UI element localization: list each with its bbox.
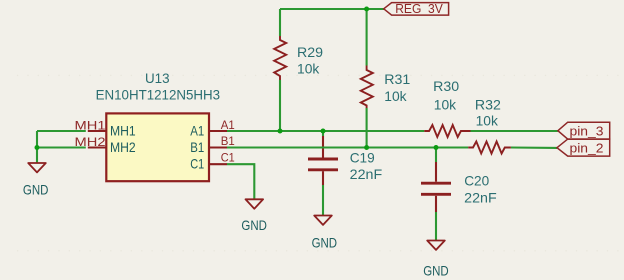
label MH1 bbox=[75, 120, 106, 133]
pin MH2 of U13 bbox=[88, 139, 136, 155]
svg-text:R30: R30 bbox=[433, 78, 459, 94]
svg-text:C19: C19 bbox=[350, 150, 375, 166]
resistor R30 bbox=[424, 78, 470, 137]
svg-text:A1: A1 bbox=[190, 123, 204, 139]
symbol U13 body bbox=[106, 113, 209, 181]
wire B1 row to pin_2 bbox=[511, 146, 557, 148]
reference U13 bbox=[145, 70, 170, 86]
svg-text:C1: C1 bbox=[190, 156, 204, 172]
svg-text:10k: 10k bbox=[297, 60, 319, 76]
resistor R32 bbox=[468, 96, 511, 153]
svg-text:22nF: 22nF bbox=[350, 166, 383, 182]
wire C19 top stub bbox=[322, 131, 324, 136]
svg-text:B1: B1 bbox=[190, 139, 204, 155]
ground MH bbox=[23, 163, 49, 198]
pin C1 of U13 bbox=[190, 156, 227, 172]
svg-text:10k: 10k bbox=[384, 88, 406, 104]
ground C20 bbox=[423, 241, 449, 279]
wire C20 top stub bbox=[435, 148, 437, 163]
svg-text:R31: R31 bbox=[384, 71, 410, 87]
label A1 bbox=[221, 119, 235, 132]
label C1 bbox=[221, 152, 235, 165]
wire MH1 row bbox=[37, 130, 86, 132]
resistor R29 bbox=[274, 36, 323, 80]
wire top rail REG_3V bbox=[280, 8, 384, 10]
pin MH1 of U13 bbox=[88, 123, 136, 139]
capacitor C20 bbox=[421, 162, 497, 212]
resistor R31 bbox=[361, 66, 411, 109]
svg-text:B1: B1 bbox=[221, 135, 235, 148]
svg-text:GND: GND bbox=[312, 235, 338, 251]
svg-text:MH1: MH1 bbox=[75, 120, 106, 133]
svg-text:A1: A1 bbox=[221, 119, 235, 132]
label B1 bbox=[221, 135, 235, 148]
wire R31 top bbox=[366, 9, 368, 66]
value EN10HT1212N5HH3 bbox=[96, 87, 221, 103]
svg-text:pin_3: pin_3 bbox=[570, 124, 604, 138]
junction node A1 / R29 bbox=[278, 129, 283, 134]
svg-text:MH2: MH2 bbox=[110, 139, 136, 155]
wire A1 row to pin_3 bbox=[471, 130, 558, 132]
svg-text:C1: C1 bbox=[221, 152, 235, 165]
junction node B1 / R31 bbox=[364, 145, 369, 150]
global label REG_3V bbox=[384, 2, 449, 16]
svg-text:MH2: MH2 bbox=[75, 136, 106, 149]
wire A1 row bbox=[227, 130, 424, 132]
svg-text:C20: C20 bbox=[464, 172, 489, 188]
svg-text:MH1: MH1 bbox=[110, 123, 136, 139]
capacitor C19 bbox=[308, 136, 382, 185]
label MH2 bbox=[75, 136, 106, 149]
svg-text:10k: 10k bbox=[434, 96, 456, 112]
pin A1 of U13 bbox=[190, 123, 227, 139]
junction node B1 / C20 bbox=[434, 145, 439, 150]
svg-text:pin_2: pin_2 bbox=[570, 141, 604, 155]
junction node A1 / C19 bbox=[321, 129, 326, 134]
svg-text:EN10HT1212N5HH3: EN10HT1212N5HH3 bbox=[96, 87, 221, 103]
ground C1 bbox=[241, 199, 267, 233]
global label pin_3 bbox=[558, 122, 610, 139]
wire C20 bottom to ground bbox=[435, 212, 437, 241]
svg-text:R32: R32 bbox=[475, 96, 501, 112]
svg-text:GND: GND bbox=[423, 263, 449, 279]
svg-text:REG_3V: REG_3V bbox=[395, 2, 443, 16]
wire R29 top bbox=[279, 9, 281, 36]
wire R29 bottom to node A1 bbox=[279, 80, 281, 131]
svg-text:GND: GND bbox=[241, 217, 267, 233]
wire C19 bottom to ground bbox=[322, 185, 324, 216]
svg-text:22nF: 22nF bbox=[464, 189, 497, 205]
svg-text:R29: R29 bbox=[297, 44, 323, 60]
wire C1 row bbox=[227, 164, 254, 199]
global label pin_2 bbox=[557, 139, 610, 156]
wire MH2 row bbox=[37, 146, 86, 148]
pin B1 of U13 bbox=[190, 139, 227, 155]
junction MH2 / ground bbox=[35, 145, 40, 150]
junction top rail / R31 bbox=[364, 7, 369, 12]
svg-text:U13: U13 bbox=[145, 70, 170, 86]
svg-text:10k: 10k bbox=[476, 113, 498, 129]
svg-text:GND: GND bbox=[23, 182, 49, 198]
wire R31 bottom to node B1 bbox=[366, 108, 368, 148]
wire B1 row bbox=[227, 146, 468, 148]
ground C19 bbox=[312, 216, 338, 251]
wire MH vertical to ground bbox=[36, 131, 38, 163]
